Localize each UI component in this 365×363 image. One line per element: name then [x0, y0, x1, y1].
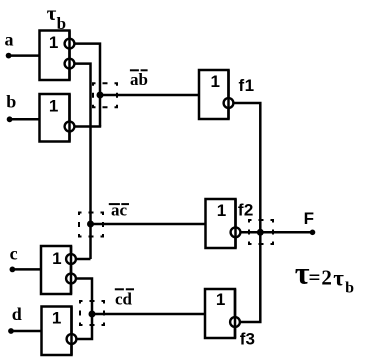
- svg-text:1: 1: [217, 201, 226, 220]
- wire node cd to U7: [92, 313, 205, 316]
- svg-text:c: c: [10, 243, 18, 263]
- U2 right edge over bubble: [68, 94, 71, 142]
- inverter U2 (input b): [40, 94, 70, 142]
- svg-text:F: F: [304, 209, 314, 228]
- wire f3 output up: [240, 232, 260, 322]
- svg-text:b: b: [345, 280, 354, 297]
- bubble U1 output 2: [65, 59, 75, 69]
- svg-text:1: 1: [49, 96, 58, 115]
- svg-text:cd: cd: [115, 290, 133, 309]
- dashed box node F: [249, 220, 273, 244]
- wire U1 out1 to node ab: [75, 44, 101, 127]
- svg-text:τ: τ: [47, 1, 57, 25]
- bubble U7 output: [230, 317, 240, 327]
- svg-text:1: 1: [210, 72, 219, 91]
- bubble U3 output 1: [66, 254, 76, 264]
- U1 right edge over bubbles: [68, 31, 71, 81]
- dashed box node ac: [79, 213, 103, 237]
- svg-text:1: 1: [52, 249, 61, 268]
- label ab (inverted): [130, 70, 148, 89]
- svg-text:a: a: [5, 29, 14, 49]
- svg-text:3: 3: [246, 329, 255, 348]
- U7 right edge over bubble: [234, 289, 237, 338]
- bubble U1 output 1: [65, 39, 75, 49]
- wire U2 out to node ab: [75, 125, 102, 128]
- svg-text:1: 1: [49, 33, 58, 52]
- wire input b: [10, 118, 40, 121]
- junction dot node ac: [87, 221, 94, 228]
- inverter U5 (f1): [199, 70, 229, 119]
- svg-text:τ: τ: [295, 255, 310, 291]
- wire U1 out2 down long: [75, 64, 91, 259]
- bubble U2 output: [65, 122, 75, 132]
- wire input a: [9, 54, 40, 57]
- label ac (inverted): [109, 201, 129, 220]
- svg-text:=: =: [309, 265, 321, 289]
- wire U3 out2 down to node cd: [76, 279, 92, 315]
- svg-text:d: d: [12, 304, 22, 324]
- junction dot node cd: [89, 311, 96, 318]
- U3 right edge over bubbles: [70, 246, 73, 294]
- inverter U4 (input d): [42, 307, 72, 356]
- dashed box node ab: [93, 83, 117, 107]
- wire input d: [11, 330, 42, 333]
- U6 right edge over bubble: [234, 199, 237, 248]
- svg-text:f: f: [239, 76, 245, 95]
- svg-text:b: b: [6, 91, 16, 111]
- label tau_b: [47, 1, 66, 33]
- inverter U7 (f3): [205, 289, 235, 338]
- input b terminal: [7, 116, 13, 122]
- input d terminal: [8, 328, 14, 334]
- wire input c: [12, 268, 41, 271]
- junction dot node ab: [97, 92, 104, 99]
- inverter U1 (input a): [40, 31, 70, 81]
- label cd (inverted): [115, 289, 134, 308]
- U5 right edge over bubble: [227, 70, 230, 119]
- inverter U6 (f2): [206, 199, 236, 248]
- wire f2 output to F terminal: [241, 231, 313, 234]
- svg-text:τ: τ: [333, 266, 344, 291]
- svg-text:1: 1: [245, 76, 254, 95]
- svg-text:2: 2: [321, 266, 332, 290]
- terminal F: [310, 230, 316, 236]
- inverter U3 (input c): [41, 246, 71, 294]
- wire U4 out up to node cd: [77, 314, 93, 339]
- svg-text:2: 2: [244, 201, 253, 220]
- wire node ab to U5: [100, 94, 199, 97]
- bubble U4 output: [67, 334, 77, 344]
- equation tau = 2 tau_b: [295, 255, 354, 297]
- wire node ac to U6: [91, 223, 206, 226]
- wire f1 output down: [234, 103, 261, 232]
- dashed box node cd: [80, 301, 104, 325]
- wire U3 out1 up to node ac: [76, 258, 91, 261]
- bubble U3 output 2: [66, 274, 76, 284]
- input a terminal: [6, 53, 12, 59]
- bubble U5 output: [224, 98, 234, 108]
- input c terminal: [10, 267, 16, 273]
- svg-text:ab: ab: [130, 70, 148, 89]
- U4 right edge over bubble: [70, 307, 73, 356]
- junction dot node F: [257, 229, 264, 236]
- svg-text:1: 1: [52, 308, 61, 327]
- svg-text:1: 1: [216, 290, 225, 309]
- bubble U6 output: [231, 227, 241, 237]
